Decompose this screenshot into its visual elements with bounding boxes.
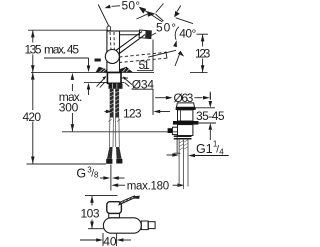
svg-text:max.180: max.180: [127, 180, 170, 192]
svg-text:50°: 50°: [122, 0, 141, 12]
svg-text:123: 123: [195, 47, 211, 61]
svg-text:Ø63: Ø63: [174, 91, 194, 105]
svg-text:103: 103: [81, 207, 100, 221]
svg-text:123: 123: [123, 106, 142, 120]
svg-text:135: 135: [25, 43, 42, 57]
svg-text:50°: 50°: [156, 21, 176, 35]
svg-text:420: 420: [23, 110, 42, 124]
svg-text:300: 300: [59, 100, 79, 114]
svg-text:40: 40: [103, 234, 117, 247]
svg-text:max. 45: max. 45: [44, 43, 79, 57]
svg-text:8: 8: [94, 170, 99, 179]
svg-text:35-45: 35-45: [196, 109, 225, 123]
svg-text:G1: G1: [196, 142, 213, 156]
svg-text:51: 51: [139, 58, 151, 72]
svg-text:G: G: [76, 167, 86, 181]
svg-text:40°: 40°: [179, 27, 196, 41]
